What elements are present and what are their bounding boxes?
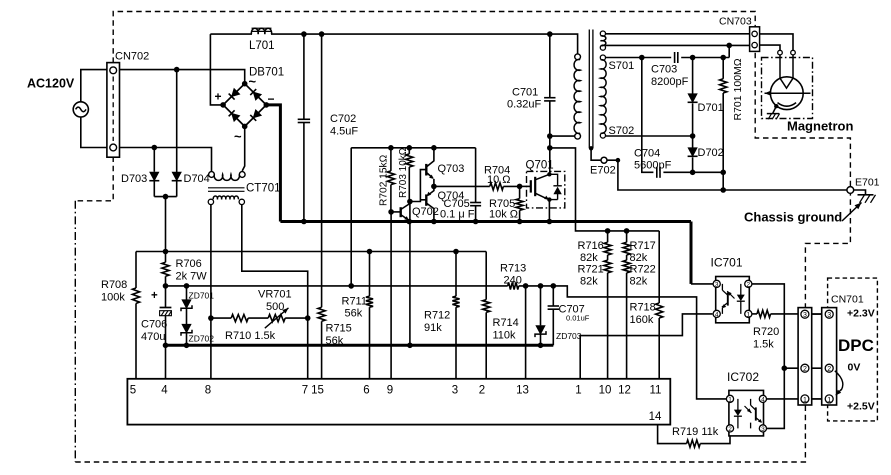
magnetron box (dash-dot) [762,58,813,119]
svg-text:C701: C701 [512,87,538,99]
wire S702 line [606,135,693,137]
svg-text:2: 2 [746,282,750,289]
enclosure border jog near CN702 (dashed) [75,157,113,201]
diode D704 [176,70,178,173]
svg-text:R717: R717 [630,240,656,252]
junction R712 top [453,249,459,255]
svg-text:Q702: Q702 [412,206,439,218]
svg-text:11: 11 [650,385,662,397]
svg-text:R719 11k: R719 11k [672,426,719,438]
optocoupler IC701 [716,277,750,323]
svg-text:56k: 56k [326,335,344,347]
enclosure border left (dash-dot) [74,201,76,462]
transformer T701 core [589,30,593,149]
wire rail drop to IC701 pin3 (thick) [690,222,693,284]
svg-text:ZD703: ZD703 [556,331,582,341]
svg-text:C706: C706 [141,319,167,331]
junction C707 top [551,283,557,289]
diode D703 [153,148,155,172]
junction ZD703 top [538,283,544,289]
svg-text:CT701: CT701 [246,183,281,195]
wire pin14 to R719 [658,425,687,444]
svg-text:4: 4 [715,312,719,319]
junction R701 top [720,55,726,61]
wire Q702 base to pin 9 [390,212,392,379]
junction pin15 riser on top rail [319,31,325,37]
svg-text:R715: R715 [326,323,352,335]
svg-text:1: 1 [728,397,732,404]
wire filament top to CN703 [606,33,751,35]
wire CT701 secondary right to pin7 [242,205,308,379]
wire collector tap to divider top [550,148,659,231]
svg-text:IC702: IC702 [727,370,759,384]
svg-text:DPC: DPC [838,336,874,355]
svg-text:C704: C704 [634,148,660,160]
svg-text:D701: D701 [698,102,724,114]
svg-text:R714: R714 [493,317,519,329]
resistor R713 [508,282,519,289]
wire primary bottom terminal [550,133,578,136]
bridge rectifier DB701 [223,84,266,127]
svg-text:5: 5 [130,385,136,397]
wire driver Vcc from control supply [350,148,352,286]
wire pin13 [525,286,527,379]
svg-text:12: 12 [618,385,631,397]
capacitor C704 [656,167,658,178]
svg-text:E701: E701 [855,177,880,189]
svg-text:R722: R722 [630,264,656,276]
wire Q702 collector to ground bus [409,202,411,346]
svg-text:D702: D702 [698,147,724,159]
wire E702 to E701 chassis line [607,160,847,190]
junction D701 top [690,55,696,61]
svg-text:R711: R711 [342,296,367,308]
svg-text:0.32uF: 0.32uF [507,99,542,111]
svg-text:R703 10kΩ: R703 10kΩ [398,147,409,198]
junction Q702 base [388,209,394,215]
svg-text:160k: 160k [630,314,654,326]
svg-text:5600pF: 5600pF [634,160,672,172]
junction C701/primary/collector [547,133,553,139]
resistor R706 [165,252,167,263]
svg-text:Chassis ground: Chassis ground [744,210,842,225]
svg-text:R702 15kΩ: R702 15kΩ [379,154,390,206]
svg-text:240: 240 [504,275,522,287]
wire driver output to gate resistor [434,185,490,187]
svg-text:2: 2 [728,426,732,433]
transistor Q703 [425,164,427,176]
svg-text:1: 1 [575,385,581,397]
inductor L701 [252,28,272,31]
resistor R705 [519,186,521,198]
svg-text:470u: 470u [141,331,165,343]
svg-text:R710 1.5k: R710 1.5k [225,330,276,342]
wire bridge - to power rail (thick) [266,105,280,222]
wire Q701 emitter to power rail [548,200,550,222]
svg-text:82k: 82k [580,276,598,288]
junction S701 riser [726,43,732,49]
resistor R714 [485,252,487,300]
svg-text:R716: R716 [578,240,604,252]
svg-text:1.5k: 1.5k [753,339,774,351]
junction D704 on top AC wire [174,67,180,73]
wire CT701 secondary left to pin8 [210,205,212,379]
resistor R715 [321,34,323,307]
wire top AC to bridge [120,70,245,84]
resistor R720 [752,313,757,315]
junction feedback tap [547,145,553,151]
svg-text:56k: 56k [345,308,363,320]
wire bottom AC to CT701 [120,148,212,172]
svg-text:4: 4 [761,397,765,404]
wire AC live top [81,70,107,102]
transformer T701 secondary [600,55,605,60]
svg-text:9: 9 [387,385,393,397]
enclosure border through CN702 (dashed) [112,77,114,142]
svg-text:R721: R721 [578,264,604,276]
wire S701 HV line [606,57,730,59]
wire top DC rail [210,33,252,35]
svg-text:CN703: CN703 [719,16,752,28]
svg-text:0V: 0V [848,362,861,374]
svg-text:VR701: VR701 [258,289,292,301]
wire C704 branch [642,58,723,173]
diode D702 [692,136,694,148]
svg-text:IC701: IC701 [711,256,743,270]
resistor R710 [231,315,248,322]
junction 0V node [782,365,788,371]
wire D703/D704 junction to R706 node [154,197,176,252]
svg-text:3: 3 [827,312,831,319]
optocoupler IC702 [729,390,764,436]
wire pin1 to IC701 pin4 [580,314,712,379]
svg-text:D703: D703 [121,173,147,185]
resistor R721 [607,255,609,260]
svg-text:110k: 110k [493,330,517,342]
svg-text:AC120V: AC120V [27,77,75,91]
IGBT Q701 [530,180,532,192]
resistor R708 [132,288,139,303]
connector CN701 DPC side [822,308,837,405]
svg-text:2: 2 [803,366,807,373]
svg-text:10 Ω: 10 Ω [487,174,511,186]
svg-text:R713: R713 [500,263,526,275]
resistor R701 [722,58,724,79]
connector CN703 [750,27,760,52]
svg-text:3: 3 [803,312,807,319]
svg-text:100k: 100k [101,292,125,304]
junction D703 on bottom AC wire [152,145,158,151]
svg-text:14: 14 [649,411,662,423]
connector CN702 [107,63,120,158]
svg-text:15: 15 [311,385,324,397]
wire filament bottom to CN703 [606,44,751,46]
svg-text:13: 13 [516,385,529,397]
wire CN703 to magnetron left terminal [760,45,780,50]
potentiometer feed wire [211,317,231,319]
svg-text:+: + [215,90,222,104]
wire 0V to CN701 [784,367,825,369]
control ground bus (thick) [166,344,554,347]
terminal E702 [591,148,601,160]
power rail negative bus (thick) [280,220,691,223]
svg-text:3: 3 [715,282,719,289]
wire driver Vcc rail [351,147,475,149]
svg-text:8: 8 [205,385,211,397]
wire IC701 pin2 down to IC702 pin3 [752,284,784,429]
svg-text:CN701: CN701 [831,294,864,306]
resistor R719 [687,440,701,447]
transformer T701 primary [575,54,581,60]
wire gate node to Q701 [517,184,523,190]
svg-text:1: 1 [827,397,831,404]
svg-text:8200pF: 8200pF [651,76,689,88]
chassis ground arrow [842,203,862,222]
wire rail to IC701 pin3 [691,283,713,285]
junction R716 top [605,228,611,234]
capacitor C701 [547,31,553,37]
svg-text:10: 10 [599,385,612,397]
svg-text:4.5uF: 4.5uF [330,126,358,138]
svg-text:1: 1 [746,312,750,319]
wire Q701 collector to primary return [549,136,551,174]
magnetron cathode ground [774,104,778,108]
svg-text:CN702: CN702 [115,51,149,63]
svg-text:0.01uF: 0.01uF [566,314,590,323]
wire AC neutral bottom [81,117,107,148]
chassis ground symbol [854,190,866,195]
junction R706 top [163,249,169,255]
DPC box (dashed) [828,278,878,421]
svg-text:R708: R708 [101,279,127,291]
junction pin13 [523,283,529,289]
capacitor C706 (electrolytic) [165,286,167,308]
junction VR701 right / pin7 [305,315,311,321]
resistor R722 [626,255,628,260]
resistor R717 [626,231,628,242]
transformer T701 filament winding [600,31,605,36]
junction C706 on ground bus [163,343,169,349]
resistor R702 [388,145,394,151]
svg-text:S701: S701 [609,60,635,72]
capacitor C707 [552,286,554,306]
transistor Q704 [425,194,427,205]
junction driver Vcc tap [348,283,354,289]
svg-text:2: 2 [479,385,485,397]
zener ZD701 [184,283,190,289]
svg-text:R706: R706 [176,258,202,270]
svg-text:D704: D704 [184,173,210,185]
svg-text:82k: 82k [630,276,648,288]
svg-text:7: 7 [302,385,308,397]
svg-text:+2.3V: +2.3V [847,308,875,320]
zener ZD703 [540,286,542,326]
svg-text:Magnetron: Magnetron [787,119,854,134]
svg-text:10k Ω: 10k Ω [489,209,518,221]
svg-text:+: + [151,290,158,302]
svg-text:1: 1 [803,397,807,404]
wire base tie Q703/Q704 [410,170,426,202]
svg-text:500: 500 [266,301,284,313]
terminal E701 [847,187,854,194]
svg-text:R718: R718 [630,302,656,314]
svg-text:91k: 91k [424,322,442,334]
wire IC702 pin4 to CN701 [767,398,826,400]
magnetron tube [770,77,803,110]
svg-text:Q703: Q703 [438,163,465,175]
junction R711 top [367,249,373,255]
AC source AC120V [73,102,88,117]
junction Vcc node [163,283,169,289]
svg-text:82k: 82k [630,252,648,264]
zener ZD702 [182,324,191,333]
capacitor C703 [674,52,676,63]
capacitor C702 [301,31,307,37]
junction C704 branch [639,55,645,61]
svg-text:C702: C702 [330,113,356,125]
resistor R718 [658,231,660,303]
resistor R704 [490,183,504,190]
magnetron terminals [778,50,783,55]
svg-text:4: 4 [161,385,168,397]
svg-text:6: 6 [363,385,369,397]
capacitor C705 [475,148,477,203]
wire control supply node [136,252,166,289]
svg-text:R720: R720 [753,326,779,338]
diode D701 [692,58,694,94]
control IC box [127,379,670,425]
svg-text:L701: L701 [249,40,275,52]
resistor R711 [369,252,371,297]
svg-text:82k: 82k [580,252,598,264]
svg-text:~: ~ [249,74,257,89]
0V jumper arc [836,390,841,396]
svg-text:R701 100MΩ: R701 100MΩ [732,58,744,120]
resistor R703 [407,145,413,151]
junction R717 top [624,228,630,234]
svg-text:E702: E702 [590,165,616,177]
svg-text:3: 3 [452,385,458,397]
freewheel diode in Q701 [549,174,557,199]
transformer CT701 [209,172,215,178]
wire bridge + to top rail [210,34,223,105]
junction Q702 collector node [407,199,413,205]
resistor R712 [455,252,457,297]
svg-text:R712: R712 [424,310,450,322]
junction D701/S702 [690,133,696,139]
svg-text:C703: C703 [651,64,677,76]
svg-text:2: 2 [827,366,831,373]
svg-text:3: 3 [761,426,765,433]
resistor R716 [607,231,609,242]
svg-text:~: ~ [234,129,242,144]
IGBT Q701 box (dash-dot) [527,171,565,208]
potentiometer VR701 [268,315,285,322]
junction driver output node [431,184,437,190]
wire control Vcc distribution [166,286,727,399]
connector CN701 board side [798,308,812,405]
svg-text:2k 7W: 2k 7W [176,271,208,283]
svg-text:+2.5V: +2.5V [847,401,875,413]
transistor Q702 [400,207,402,217]
wire CN703 to magnetron right terminal [760,34,793,50]
wire bridge ~ bottom to CT701 primary [242,126,245,170]
svg-text:0.1 μ F: 0.1 μ F [440,209,475,221]
